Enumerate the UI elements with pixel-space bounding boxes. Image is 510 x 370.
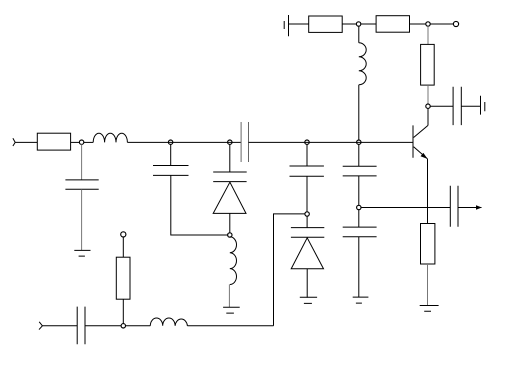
ground — [74, 250, 90, 256]
ground — [223, 307, 240, 313]
wire — [81, 144, 83, 180]
input port J2 — [39, 322, 42, 330]
capacitor C10 — [77, 307, 85, 345]
resistor R3 — [421, 44, 435, 85]
wire — [85, 325, 121, 327]
wire — [306, 269, 308, 298]
wire — [171, 175, 229, 235]
node G — [228, 233, 232, 237]
node I — [305, 140, 309, 144]
battery B2 — [481, 96, 485, 115]
varactor D1 — [213, 172, 247, 213]
wire — [71, 141, 80, 143]
wire — [361, 23, 376, 25]
wire — [430, 23, 453, 25]
wire — [122, 237, 124, 257]
wire — [228, 285, 230, 308]
wire — [306, 176, 308, 212]
capacitor C2 — [450, 186, 458, 227]
battery B1 — [284, 15, 288, 36]
capacitor C8 — [343, 166, 377, 176]
capacitor C1 — [453, 87, 461, 125]
wire — [410, 23, 427, 25]
wire — [229, 144, 231, 172]
wire — [289, 23, 309, 25]
wire — [427, 159, 429, 224]
node B — [426, 22, 430, 26]
capacitor C9 — [343, 227, 377, 237]
wire — [358, 237, 360, 297]
wire — [306, 144, 308, 166]
wire — [125, 325, 150, 327]
resistor R2 — [376, 16, 409, 33]
node J — [305, 212, 309, 216]
node E — [79, 140, 83, 144]
ground — [420, 306, 439, 312]
node K — [357, 140, 361, 144]
output arrow — [476, 205, 482, 210]
inductor L3 — [230, 237, 237, 285]
node C — [426, 104, 430, 108]
node F — [168, 140, 172, 144]
wire — [122, 299, 124, 324]
wire — [361, 207, 450, 209]
wire — [42, 325, 77, 327]
wire — [84, 141, 94, 143]
terminal T1 — [453, 21, 458, 26]
node A — [356, 22, 360, 26]
ground — [300, 297, 317, 303]
wire — [427, 264, 429, 306]
capacitor C3 — [241, 122, 248, 162]
wire — [274, 214, 305, 326]
node L — [121, 324, 125, 328]
wire — [427, 26, 429, 44]
resistor R1 — [309, 16, 343, 32]
wire — [358, 176, 360, 206]
resistor R4 — [421, 224, 435, 265]
node D — [357, 205, 361, 209]
wire — [427, 108, 429, 125]
wire — [81, 189, 83, 250]
inductor L1 — [359, 43, 366, 85]
wire — [15, 141, 37, 143]
resistor R6 — [116, 257, 130, 299]
node H — [228, 140, 232, 144]
inductor L2 — [93, 133, 127, 142]
transistor Q1 — [413, 125, 428, 158]
inductor L4 — [150, 318, 187, 326]
ground — [353, 297, 369, 303]
wire — [358, 85, 360, 140]
wire — [358, 26, 360, 43]
wire — [342, 23, 356, 25]
wire — [461, 105, 480, 107]
resistor R5 — [37, 133, 70, 150]
capacitor C5 — [153, 166, 189, 176]
wire — [427, 85, 429, 104]
wire — [187, 325, 273, 327]
wire — [430, 105, 453, 107]
wire — [358, 210, 360, 227]
input port J1 — [13, 138, 15, 146]
wire — [358, 144, 360, 166]
wire — [170, 144, 172, 165]
wire — [458, 207, 482, 209]
capacitor C4 — [65, 180, 98, 189]
wire — [229, 213, 231, 233]
varactor D2 — [291, 216, 324, 269]
wire — [127, 141, 241, 143]
capacitor C6 — [290, 166, 324, 176]
wire — [249, 141, 414, 143]
terminal T2 — [121, 232, 126, 237]
